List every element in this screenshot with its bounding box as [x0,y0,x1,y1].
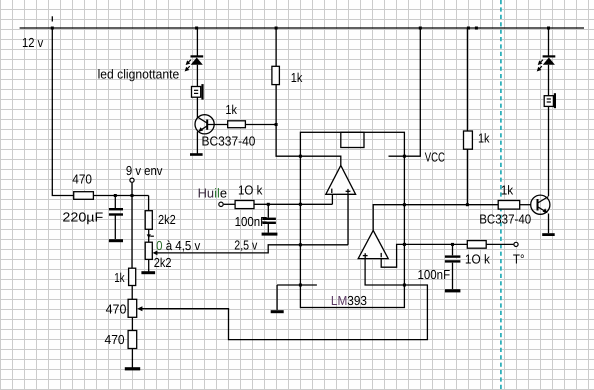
wire in2- net to 1Ok [404,243,467,245]
ground under 220uF [109,239,123,242]
wire 1k to 470 pot [131,286,133,300]
wire 9v node down to 1k [131,196,133,269]
LED module box right [544,93,555,108]
wire left rail down [52,28,73,196]
svg-text:1k: 1k [501,182,514,197]
node rail / LED column [195,27,198,30]
arrow 470 pot wiper left [137,306,142,311]
node rail / right LED column [547,27,550,30]
resistor R3 2k2 lower (pot) [145,242,152,259]
svg-text:470: 470 [106,302,127,317]
wire right LED column top [548,28,550,56]
pin 4 gnd [299,284,302,287]
svg-text:100nF: 100nF [418,267,451,282]
resistor R4 1k left column [129,268,136,285]
wire VCC pin [389,28,421,156]
ground under left transistor [190,153,203,156]
svg-text:1k: 1k [225,102,237,117]
capacitor C2 100n left [262,219,276,223]
wire op1 plus input [347,194,349,245]
transistor Q2 BC337-40 right [531,195,550,214]
node 9v env tap [131,194,134,197]
pin 3 in1+ [299,243,302,246]
svg-text:1O k: 1O k [465,251,490,266]
wire 220uF top lead [114,196,116,209]
svg-text:470: 470 [105,332,125,347]
op-amp U1B [358,230,388,258]
svg-text:470: 470 [72,172,92,187]
wire 1k column to out2 net [466,149,468,205]
IC notch [341,132,364,147]
pin 6 in2- [403,243,406,246]
svg-text:0 à 4,5 v: 0 à 4,5 v [156,238,201,253]
LED module box left [192,84,203,100]
wire op2 minus hook [381,244,404,267]
svg-text:2k2: 2k2 [158,212,176,227]
wire 1k column right [466,28,468,131]
resistor R10 1k pullup out2 [464,131,473,149]
IC U1 LM393 outline [300,132,404,307]
pin 7 out2 [403,203,406,206]
ground under 100n left [262,233,278,236]
ground under 2k2 pot [141,271,155,274]
resistor R5 470 pot [128,299,137,317]
svg-text:2,5 v: 2,5 v [234,238,257,253]
wire right LED to box [548,65,550,96]
capacitor C1 220uF [109,209,123,214]
ground right transistor emitter [542,233,555,236]
wire left box to transistor [196,97,198,118]
node rail / right 1k column [467,27,470,30]
node rail stray dot [475,27,478,30]
transistor Q1 BC337-40 left [195,115,214,134]
wire pot2 wiper to 2,5v net [156,245,348,253]
svg-text:1k: 1k [114,270,125,285]
wire 1Ok to op1 minus [254,203,332,205]
wire 100n left bottom lead [267,224,269,233]
page-break dashed line [500,0,502,390]
wire 470 to 9v node [93,195,148,197]
node Q1 base / out1 [275,123,278,126]
pin 5 in2+ [403,284,406,287]
node 100nF right tap [451,243,454,246]
terminal Huile [219,202,223,206]
wire left LED to box [196,65,198,87]
svg-text:1O k: 1O k [238,183,263,198]
wire 2k2 bottom to ground [148,259,150,271]
wire op2 plus to pot return [139,259,427,340]
LED D1 flashing left [186,56,204,70]
svg-text:BC337-40: BC337-40 [202,133,256,148]
wire base resistor right [245,124,276,126]
wire 1k pullup to out1 elbow [276,85,341,166]
wire ground pin stub [277,284,317,286]
svg-text:led clignottante: led clignottante [98,67,180,82]
pin 8 vcc [403,155,406,158]
terminal T [514,242,518,246]
wire ground pin drop [276,285,278,310]
capacitor C3 100nF right [445,257,461,262]
svg-text:Huile: Huile [198,186,227,201]
wire right transistor emitter to ground [548,214,550,234]
resistor R1 470 horizontal [74,192,94,200]
wire 100nF right top lead [452,244,454,255]
pin 2 in1- [299,203,302,206]
resistor R8 1k base left [228,121,246,128]
svg-text:9 v env: 9 v env [126,163,163,178]
wire out1 pullup column [275,28,277,66]
resistor R2 2k2 upper [145,211,152,230]
wire 2k2 junction [148,229,150,242]
svg-text:1k: 1k [478,131,490,146]
op-amp U1A [326,165,356,194]
wire right box to transistor [548,105,550,196]
svg-text:100nF: 100nF [235,214,268,229]
svg-text:220µF: 220µF [62,210,103,225]
wire out2 apex up and right [373,205,498,231]
wire base resistor left [208,124,228,126]
arrow pot2 wiper left [153,251,158,256]
wire down to 2k2 [148,196,150,211]
svg-text:1k: 1k [291,70,303,85]
resistor R6 470 bottom [128,331,137,349]
node 100n left tap [267,203,270,206]
svg-text:2k2: 2k2 [154,255,172,270]
wire 1Ok to T terminal [486,243,513,245]
wire 12V top rail [20,27,584,29]
wire left transistor emitter to ground [196,132,198,154]
wire 100n left top lead [267,204,269,217]
resistor R11 1k base right [498,201,520,210]
svg-text:LM393: LM393 [331,293,367,308]
arrow pot1 wiper down [147,234,151,238]
ground under 100nF right [445,289,461,292]
node 220uF tap [114,194,117,197]
wire left LED column top [196,28,198,56]
svg-text:VCC: VCC [425,149,445,164]
ground bottom of 470 chain [125,367,140,370]
node rail / VCC drop [419,27,422,30]
ground op2 plus pin [271,310,284,313]
LED D2 flashing right [538,56,556,70]
wire 470 to ground [131,349,133,368]
wire 220uF bottom lead [114,216,116,240]
svg-text:T°: T° [513,251,525,266]
wire 100nF right bottom lead [452,263,454,289]
svg-text:12 v: 12 v [22,35,44,50]
terminal 9 v env [130,178,134,182]
svg-text:BC337-40: BC337-40 [479,211,531,226]
resistor R7 1Ok Huile [235,201,254,209]
wire 470 pot to 470 [131,317,133,330]
resistor R12 1Ok T [467,241,486,249]
wire op1 minus drop [331,194,333,204]
node out2 / 1k column [466,203,469,206]
wire 9v env terminal lead [131,183,133,196]
resistor R9 1k pullup out1 [272,66,280,84]
node 12V at left rail [51,27,54,30]
wire 1k to right transistor base [520,204,531,206]
node rail / 1k pullup column [275,27,278,30]
wire Huile input net [224,203,235,205]
wire tick above rail [51,16,53,21]
pin 1 out1 [299,155,302,158]
